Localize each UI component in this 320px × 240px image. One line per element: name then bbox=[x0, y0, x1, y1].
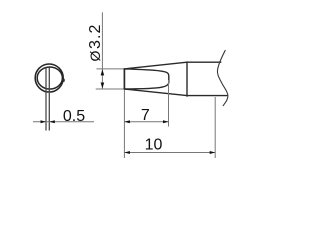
cone top silhouette bbox=[124, 62, 187, 69]
svg-text:7: 7 bbox=[141, 107, 150, 124]
7 dimension line bbox=[124, 121, 168, 123]
0.5 dimension line bbox=[33, 121, 94, 123]
end view face ellipse bbox=[37, 67, 62, 89]
tip face outline curve bbox=[124, 69, 168, 89]
svg-text:10: 10 bbox=[145, 136, 163, 153]
dia 3.2 arrow down bbox=[101, 83, 105, 89]
7 arrow right bbox=[163, 120, 169, 123]
dia 3.2 top extension line bbox=[97, 68, 125, 70]
nub on circle right bbox=[63, 78, 65, 82]
shaft top line bbox=[187, 61, 221, 63]
10 dimension line bbox=[124, 152, 215, 154]
cone bottom silhouette bbox=[124, 89, 187, 96]
blade edge line left (extension) bbox=[45, 67, 47, 130]
dia 3.2 dimension line bbox=[101, 12, 103, 89]
10 arrow right bbox=[210, 151, 216, 154]
step line cone to shaft bbox=[186, 61, 188, 96]
7 dim right extension line bbox=[168, 80, 170, 127]
left extension line below tip bbox=[123, 90, 125, 158]
dia 3.2 arrow up bbox=[101, 69, 105, 75]
blade edge line right (extension) bbox=[48, 67, 50, 130]
dia 3.2 bottom extension line bbox=[96, 88, 125, 90]
0.5 arrow right bbox=[49, 120, 55, 123]
7 arrow left bbox=[124, 120, 129, 123]
10 arrow left bbox=[124, 151, 129, 154]
svg-text:0.5: 0.5 bbox=[63, 108, 85, 125]
svg-text:Ø3.2: Ø3.2 bbox=[87, 23, 104, 61]
0.5 arrow left bbox=[41, 120, 47, 123]
break squiggle line bbox=[217, 50, 228, 106]
shaft bottom line bbox=[187, 95, 228, 97]
end view outer circle bbox=[35, 64, 63, 92]
10 dim right extension line bbox=[214, 97, 216, 158]
tip blade edge (side view) bbox=[123, 68, 125, 90]
